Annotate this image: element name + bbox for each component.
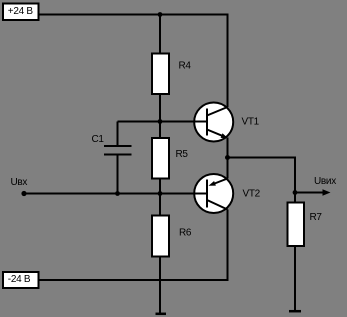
wire R7 bottom lead — [294, 245, 296, 311]
wire input to VT2 base — [24, 193, 207, 195]
input terminal dot — [21, 191, 26, 196]
wire R4 bottom lead — [159, 95, 161, 122]
+24V supply box — [3, 4, 39, 21]
transistor VT2 — [194, 174, 260, 213]
output arrow — [295, 192, 323, 194]
wire VT2 collector drop — [227, 210, 229, 282]
svg-text:Uвих: Uвих — [314, 176, 336, 187]
resistor R5 — [152, 138, 188, 179]
wire bottom -24V rail — [40, 279, 228, 281]
transistor VT1 — [194, 103, 259, 142]
wire VT1 collector drop — [227, 14, 229, 108]
wire R5 bottom lead — [159, 179, 161, 194]
resistor R6 — [152, 216, 192, 257]
svg-text:R6: R6 — [179, 228, 192, 239]
junction dot emitters — [225, 155, 230, 160]
ground (left) — [156, 313, 167, 316]
wire top +24V rail — [40, 14, 228, 16]
junction dot C1 / input wire — [115, 191, 120, 196]
capacitor C1 — [92, 122, 132, 194]
junction dot output / R7 — [293, 190, 298, 195]
-24V supply box — [3, 272, 39, 288]
wire R7 top lead — [294, 193, 296, 204]
svg-text:VT2: VT2 — [243, 188, 261, 199]
svg-text:C1: C1 — [92, 134, 105, 145]
wire R5 top lead — [159, 122, 161, 139]
junction dot R5/R6 — [158, 191, 163, 196]
wire R4 top lead — [159, 15, 161, 54]
svg-text:+24 В: +24 В — [8, 6, 34, 17]
resistor R7 — [288, 203, 323, 247]
wire emitters to output node — [228, 157, 296, 159]
wire VT1 base — [118, 121, 208, 123]
junction dot R4/R5/base — [158, 119, 163, 124]
svg-text:Uвх: Uвх — [11, 177, 28, 188]
svg-text:VT1: VT1 — [242, 116, 260, 127]
ground (right) — [289, 310, 301, 313]
svg-text:-24 В: -24 В — [8, 274, 31, 285]
wire R6 top lead — [159, 194, 161, 216]
wire VT2 emitter lead — [227, 158, 229, 179]
svg-text:R4: R4 — [179, 61, 192, 72]
junction dot top rail / R4 — [158, 12, 163, 17]
resistor R4 — [152, 54, 191, 95]
svg-text:R7: R7 — [310, 212, 323, 223]
wire VT1 emitter lead — [227, 138, 229, 158]
wire output node drop — [294, 157, 296, 193]
wire R6 bottom lead — [159, 257, 161, 314]
svg-text:R5: R5 — [176, 149, 189, 160]
